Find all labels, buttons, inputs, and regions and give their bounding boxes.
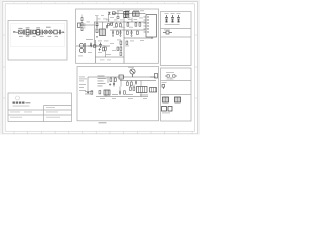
resistor R18 — [124, 91, 126, 94]
inductor L1 common-mode choke — [26, 29, 29, 35]
wire to CN3 — [150, 76, 155, 78]
node DC output arrow — [63, 31, 65, 33]
box D bottom labels — [100, 97, 147, 100]
transformer T1b shield winding — [124, 11, 129, 17]
hanging part wires — [116, 18, 139, 24]
capacitor C7 — [90, 43, 92, 47]
resistor R6 stack — [120, 41, 128, 50]
transformer T1 core — [117, 13, 119, 18]
transistor Q1 label — [128, 66, 134, 69]
resistor R7 — [105, 47, 107, 50]
varistor RV1 — [163, 31, 172, 34]
ground symbols box B — [96, 36, 133, 38]
jumper label below — [167, 78, 174, 81]
capacitor C12 — [119, 90, 121, 95]
block box C2: right option column bottom — [161, 68, 192, 121]
capacitor CY4 — [171, 15, 174, 23]
resistor R4 — [127, 31, 129, 34]
rectifier module BD1 — [54, 30, 57, 34]
frame zone tick marks — [3, 2, 197, 134]
connector CN4 bottom — [150, 88, 157, 93]
transformer T2 primary winding — [79, 43, 85, 53]
capacitor CX2 — [31, 30, 32, 35]
resistor R12 — [127, 82, 129, 85]
node arrow to CN — [152, 37, 154, 39]
IC U4 hatched — [137, 87, 148, 93]
lamp neon NE1 — [44, 30, 48, 34]
fuse F1 — [19, 30, 23, 34]
connector P2 — [175, 97, 181, 102]
lamp neon NE2 — [49, 30, 53, 34]
company logo stamp — [16, 96, 20, 100]
connector P1 — [163, 97, 169, 102]
relay K1 — [162, 107, 173, 112]
resistor R16 — [133, 87, 135, 90]
IC U2 with hatch — [100, 29, 106, 36]
resistor R17 — [91, 91, 93, 94]
capacitor C5 — [131, 30, 133, 35]
inductor L1 label — [26, 27, 30, 28]
jumper label above — [166, 71, 174, 74]
company name latin small — [25, 102, 30, 103]
net name column labels — [82, 22, 90, 29]
relay label — [162, 112, 170, 115]
bus hanging parts row — [116, 23, 141, 27]
wire secondary bus — [110, 29, 145, 31]
capacitor CY1 CY2 pair — [41, 30, 42, 35]
block box A: AC input EMI filter — [8, 21, 67, 61]
wire AC input — [16, 31, 19, 33]
resistor R15 — [130, 87, 132, 90]
snubber diode D1 cluster — [108, 12, 115, 15]
capacitor C1 filter — [59, 30, 60, 34]
capacitor CY3 — [165, 15, 168, 23]
connector CN3 to right column — [155, 74, 158, 79]
right mid specks — [128, 10, 144, 19]
connector labels — [163, 102, 181, 105]
wire risers box B — [80, 11, 136, 46]
box B upper specks — [95, 15, 123, 20]
label specks lower-left — [78, 52, 102, 56]
resistor R14 — [99, 91, 101, 94]
left label cluster in box D — [79, 77, 87, 91]
resistor R5 — [137, 31, 139, 34]
connector CN2 output header — [146, 15, 157, 38]
page margin tint — [0, 0, 200, 2]
connector CN2 pin pads — [147, 16, 148, 32]
fuse F1 value label — [18, 28, 22, 29]
sheet inner border frame — [5, 4, 194, 132]
resistor R2 startup — [96, 29, 98, 33]
wire horizontal bus D — [106, 77, 156, 81]
wire top rail — [112, 12, 146, 14]
inductor L2 label — [36, 27, 40, 28]
zener ZD1 — [87, 91, 89, 93]
sensor label — [162, 81, 167, 84]
capacitor CY5 — [177, 15, 180, 23]
node AC-L input label — [13, 31, 15, 33]
resistor R10 — [110, 78, 112, 81]
resistor R11 — [115, 78, 117, 81]
capacitor C11 — [113, 81, 115, 86]
resistor R1 bleeder — [33, 30, 36, 34]
vertical feed wire — [124, 18, 152, 64]
connector CN1 input — [78, 23, 81, 28]
capacitor C8 snub — [106, 25, 108, 29]
title block row text — [10, 107, 60, 118]
net label cluster mid-left — [98, 76, 107, 87]
wire verticals box D — [111, 77, 141, 87]
label specks mid — [113, 27, 133, 41]
jumper J1 cluster — [165, 75, 177, 80]
diode D2 D3 row — [108, 23, 113, 26]
wire main bus — [94, 21, 146, 23]
sheet outer border frame — [3, 2, 198, 134]
capacitor C2 bulk electrolytic — [96, 22, 99, 28]
inductor L2 common-mode choke — [36, 29, 39, 35]
diode D4 output — [90, 45, 96, 47]
capacitor C6 output — [99, 43, 102, 49]
sensor TH1 — [162, 85, 165, 90]
chain bottom labels — [19, 36, 58, 37]
diode D5 — [99, 48, 101, 50]
block box C1: right option column top — [161, 12, 192, 66]
capacitor CX1 — [23, 30, 24, 35]
transformer T2 label — [86, 38, 93, 41]
resistor R13 — [131, 82, 133, 85]
block box E: title block — [8, 93, 72, 122]
CY labels — [165, 13, 181, 25]
box B scattered value labels — [97, 17, 145, 55]
wire output rail — [76, 40, 110, 63]
resistor R3 — [117, 31, 119, 34]
company name glyphs — [13, 102, 25, 104]
box B top rail labels — [117, 9, 139, 12]
capacitor C10 — [135, 81, 137, 85]
PWM IC U1 — [133, 12, 140, 16]
lamp label — [46, 27, 51, 28]
opto U3 — [119, 75, 123, 79]
resistor R8 — [103, 48, 105, 51]
wire secondary links — [88, 44, 124, 57]
box A faint inner margin rect — [11, 24, 65, 47]
capacitor C4 — [120, 30, 122, 35]
IC U5 hatched small — [104, 90, 110, 95]
bottom clusters in box D — [85, 91, 148, 95]
varistor label — [164, 29, 170, 32]
capacitor C3 — [112, 30, 114, 35]
wire j1 — [102, 22, 104, 29]
block box B: primary switching power stage — [76, 9, 159, 63]
box D caption below — [99, 122, 107, 123]
resistor R9 stack lower — [117, 47, 122, 55]
connector CN2 pins — [144, 17, 147, 32]
address text line — [13, 105, 30, 108]
wire chain connections — [22, 31, 63, 33]
box B lower band specks — [100, 59, 111, 62]
transistor Q1 — [130, 69, 135, 77]
voltage divider stack left — [81, 15, 83, 31]
diode D6 — [109, 83, 111, 85]
block box D: secondary control board — [77, 67, 159, 121]
box D wire mesh — [88, 77, 148, 97]
